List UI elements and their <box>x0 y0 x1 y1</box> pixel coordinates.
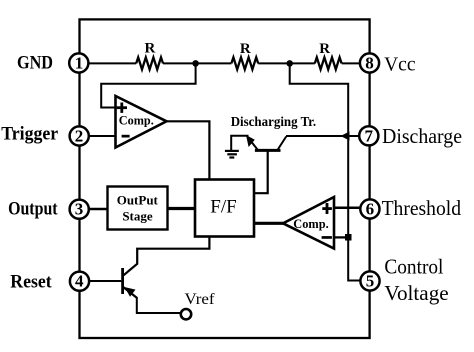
svg-text:F/F: F/F <box>210 196 236 217</box>
svg-text:Discharge: Discharge <box>382 124 462 148</box>
svg-text:Control: Control <box>384 254 443 278</box>
svg-text:R: R <box>319 41 330 57</box>
svg-text:Stage: Stage <box>122 209 153 224</box>
svg-text:Discharging Tr.: Discharging Tr. <box>231 114 316 129</box>
svg-text:Output: Output <box>8 199 58 220</box>
svg-text:6: 6 <box>366 200 375 219</box>
svg-text:Reset: Reset <box>10 271 52 292</box>
svg-text:R: R <box>144 41 155 57</box>
svg-text:OutPut: OutPut <box>117 192 159 207</box>
svg-text:Comp.: Comp. <box>293 216 328 231</box>
svg-text:1: 1 <box>75 54 84 73</box>
svg-text:Threshold: Threshold <box>382 196 462 220</box>
svg-text:R: R <box>240 41 251 57</box>
svg-text:3: 3 <box>75 200 84 219</box>
svg-text:Voltage: Voltage <box>384 281 448 305</box>
svg-text:4: 4 <box>75 272 84 291</box>
svg-text:7: 7 <box>365 126 374 145</box>
svg-text:8: 8 <box>365 54 374 73</box>
svg-text:Trigger: Trigger <box>1 124 59 145</box>
svg-text:GND: GND <box>17 53 53 74</box>
svg-text:Vref: Vref <box>185 291 216 308</box>
svg-text:2: 2 <box>75 127 84 146</box>
svg-text:5: 5 <box>366 272 375 291</box>
svg-text:Vcc: Vcc <box>384 53 416 75</box>
svg-text:Comp.: Comp. <box>119 113 154 128</box>
